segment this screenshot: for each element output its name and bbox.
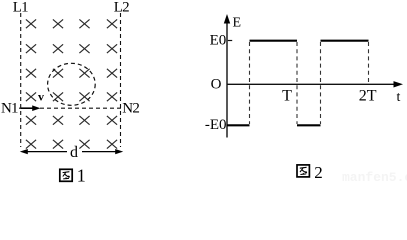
svg-text:T: T: [282, 87, 292, 104]
dimension arrow d: [20, 149, 123, 154]
line N1N2 (dashed): [19, 107, 122, 109]
boundary line L2 (dashed): [120, 13, 122, 147]
svg-text:v: v: [38, 89, 44, 103]
svg-text:2: 2: [314, 163, 323, 182]
guide dashed at 4T/3: [320, 42, 322, 124]
emf segment 3 (-E0, T to 4T/3): [297, 124, 321, 126]
caption figure 2 glyph tu: [297, 165, 309, 177]
svg-text:N2: N2: [122, 101, 139, 117]
caption figure 1 glyph tu: [60, 169, 72, 181]
t axis (horizontal): [227, 81, 403, 87]
E axis (vertical): [224, 14, 230, 138]
coil loop (dashed circle): [48, 63, 96, 105]
emf segment 2 (+E0, T/3 to T): [250, 40, 298, 42]
emf segment 1 (-E0, 0 to T/3): [227, 124, 250, 126]
svg-text:E: E: [233, 16, 242, 31]
guide dashed at T/3: [249, 42, 251, 124]
field crosses row 4: [26, 92, 117, 101]
velocity arrow v: [21, 105, 41, 111]
tick E0: [228, 40, 232, 42]
svg-text:O: O: [211, 77, 222, 93]
field crosses row 5: [26, 116, 117, 125]
guide dashed at 2T: [368, 42, 370, 83]
field crosses row 2: [26, 44, 117, 53]
svg-text:L2: L2: [114, 0, 129, 16]
svg-text:1: 1: [77, 166, 86, 183]
svg-text:N1: N1: [1, 101, 18, 117]
field crosses row 1: [26, 19, 117, 28]
svg-text:d: d: [70, 144, 78, 161]
field crosses row 6: [26, 140, 117, 149]
svg-text:manfen5.com: manfen5.com: [342, 170, 407, 183]
boundary line L1 (dashed): [20, 13, 22, 147]
emf segment 4 (+E0, 4T/3 to 2T): [321, 40, 369, 42]
svg-text:2T: 2T: [359, 87, 377, 104]
svg-text:E0: E0: [210, 32, 227, 48]
svg-text:-E0: -E0: [205, 117, 227, 133]
field crosses row 3: [26, 69, 117, 78]
svg-text:t: t: [397, 90, 401, 105]
guide dashed at T: [296, 42, 298, 124]
